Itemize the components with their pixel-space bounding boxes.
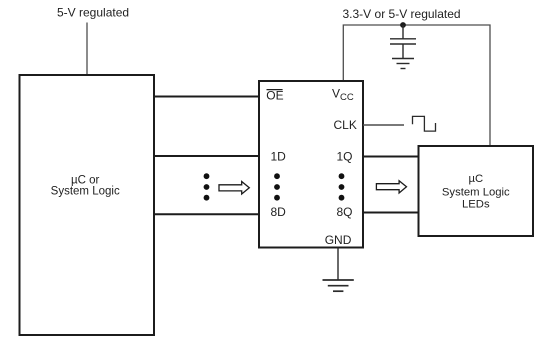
svg-text:8D: 8D: [271, 205, 287, 219]
svg-text:1D: 1D: [271, 150, 287, 164]
svg-text:OE: OE: [266, 89, 283, 103]
ellipsis dots (inside register, Q side): [339, 173, 345, 200]
ground (capacitor): [392, 59, 414, 69]
svg-text:5-V regulated: 5-V regulated: [57, 6, 129, 20]
clock waveform symbol: [413, 116, 436, 131]
block: µC or System Logic: [20, 75, 155, 335]
pin OE (with overline): [266, 89, 283, 103]
wire CLK: [363, 124, 404, 126]
wire 8D: [155, 213, 258, 215]
junction dot on VCC rail: [400, 22, 406, 28]
bus arrow (D inputs): [219, 182, 249, 195]
wire GND pin to ground: [337, 248, 339, 280]
svg-text:8Q: 8Q: [337, 205, 353, 219]
svg-text:LEDs: LEDs: [462, 199, 490, 211]
ellipsis dots (D bus): [204, 173, 210, 200]
ellipsis dots (inside register, D side): [274, 173, 280, 200]
svg-text:CLK: CLK: [334, 118, 357, 132]
svg-text:µC or: µC or: [71, 174, 100, 186]
ground (GND pin): [323, 280, 354, 291]
wire 8Q: [363, 212, 418, 214]
capacitor C1 bypass: [390, 25, 416, 58]
wire VCC rail (3.3-V/5-V) horizontal: [343, 25, 490, 146]
register block (octal D latch): [259, 81, 363, 248]
svg-text:GND: GND: [325, 233, 352, 247]
svg-text:3.3-V or 5-V regulated: 3.3-V or 5-V regulated: [343, 7, 461, 21]
block: µC / System Logic / LEDs: [419, 146, 534, 236]
svg-text:µC: µC: [468, 173, 483, 185]
svg-text:1Q: 1Q: [337, 150, 353, 164]
wire OE: [155, 96, 258, 98]
wire 1D: [155, 155, 258, 157]
svg-text:System Logic: System Logic: [51, 186, 120, 198]
wire 5-V supply to microcontroller block: [86, 23, 88, 75]
bus arrow (Q outputs): [376, 181, 406, 193]
wire 1Q: [363, 156, 418, 158]
svg-text:System Logic: System Logic: [442, 187, 510, 199]
